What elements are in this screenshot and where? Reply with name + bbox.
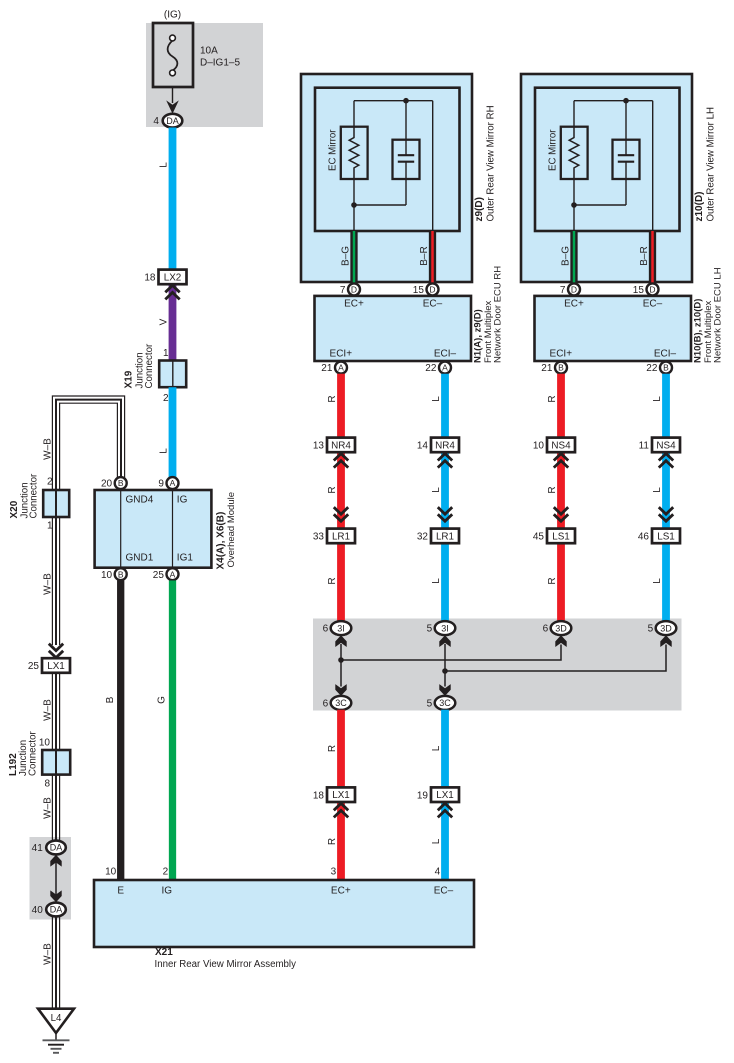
junction connector L192 [42,750,70,775]
resistor (EC mirror element) [341,127,368,179]
connector 40 DA [46,903,66,917]
svg-text:10: 10 [533,441,545,452]
chevron arrows above 25 LX1 [49,651,63,658]
svg-text:6: 6 [323,699,329,710]
junction connector X19 [159,361,186,388]
svg-text:46: 46 [638,532,650,543]
connector 10 NS4 [547,438,575,453]
connector 18 LX1 [327,787,355,802]
gray junction band (left, 41 DA / 40 DA) [30,837,72,920]
chevron arrows below 13 NR4 [334,454,348,461]
svg-text:B: B [118,478,124,488]
connector 6 3D [551,621,572,635]
svg-text:W–B: W–B [43,438,54,460]
svg-text:Network Door ECU RH: Network Door ECU RH [492,266,503,363]
wire internal top [574,100,653,102]
svg-text:21: 21 [321,363,333,374]
arrow into 6 3D [555,635,566,647]
connector 41 DA [46,841,66,855]
junction dot (node EC+) [338,657,344,663]
junction dot (bottom) [351,202,357,208]
pin 7 D [568,283,580,295]
wire capacitor bottom lead [405,162,407,205]
svg-text:B–G: B–G [560,246,571,266]
pin 20 B (overhead module) [115,477,127,489]
svg-text:LS1: LS1 [657,531,675,542]
svg-text:W–B: W–B [43,573,54,595]
wire B (black, overhead module pin 10 to X21 pin 10) [117,581,124,881]
connector 4 DA [163,114,183,128]
svg-text:NS4: NS4 [551,440,571,451]
crossover wire EC- (5 3I to 5 3D) [445,645,666,672]
svg-text:8: 8 [44,779,50,790]
wire fuse to connector 4 DA [172,87,174,103]
svg-text:22: 22 [646,363,658,374]
svg-text:L: L [652,396,663,402]
svg-text:ECI–: ECI– [654,348,677,359]
junction dot (top, above capacitor) [403,98,409,104]
svg-text:L4: L4 [51,1013,62,1024]
connector 5 3I [435,621,456,635]
wire L (11 NS4 to 46 LS1) [662,452,670,528]
chevron arrows below 11 NS4 [659,454,673,461]
svg-text:R: R [327,395,338,402]
svg-text:EC Mirror: EC Mirror [328,129,339,171]
svg-text:3D: 3D [660,623,672,633]
svg-text:X21: X21 [155,947,173,958]
svg-text:Connector: Connector [144,343,155,388]
wire R (18 LX1 to X21) [337,802,345,880]
wire G (green, overhead module pin 25 to X21 pin 2) [169,581,176,881]
svg-text:B–R: B–R [419,246,430,265]
svg-text:ECI+: ECI+ [330,348,353,359]
svg-text:D: D [571,285,577,295]
svg-text:6: 6 [543,624,549,635]
svg-text:D–IG1–5: D–IG1–5 [200,58,240,69]
junction dot (top, above capacitor) [623,98,629,104]
svg-text:LR1: LR1 [332,531,351,542]
svg-text:B–G: B–G [340,246,351,266]
wire B-R (z10(D) pin 15) [649,231,656,283]
capacitor [393,140,420,179]
resistor (EC mirror element) [561,127,588,179]
svg-text:W–B: W–B [43,797,54,819]
wire resistor bottom lead [573,179,575,231]
svg-text:N10(B), z10(D): N10(B), z10(D) [692,299,703,363]
pin 9 A (overhead module) [167,477,179,489]
inner rear view mirror assembly X21 [94,880,474,947]
wire capacitor top lead [625,101,627,156]
svg-text:L: L [431,396,442,402]
svg-text:L: L [158,448,169,454]
connector 6 3C [331,696,352,710]
svg-text:LS1: LS1 [552,531,570,542]
wire W-B (X20 up and over to overhead module pin 20) [52,396,124,490]
svg-text:R: R [547,577,558,584]
pin 7 D [348,283,360,295]
chevron arrows below 18 LX1 [334,803,348,810]
chevron arrows below 18 LX2 [165,285,179,292]
svg-text:L: L [431,745,442,751]
svg-text:E: E [117,885,124,896]
svg-text:15: 15 [633,285,645,296]
svg-text:A: A [170,478,176,488]
wire W-B (40 DA to ground L4) [51,917,53,1009]
EC mirror inner box [535,88,680,231]
svg-text:4: 4 [435,867,441,878]
svg-text:A: A [170,569,176,579]
svg-text:G: G [157,696,168,704]
svg-text:19: 19 [417,790,429,801]
svg-text:L: L [652,578,663,584]
svg-text:3C: 3C [439,698,451,708]
wire R (3C to 18 LX1) [337,710,345,788]
pin 15 D [647,283,659,295]
svg-text:7: 7 [560,285,566,296]
svg-text:R: R [327,577,338,584]
junction dot (node EC-) [442,668,448,674]
svg-text:22: 22 [425,363,437,374]
svg-text:2: 2 [163,867,169,878]
svg-text:R: R [327,745,338,752]
wire L (32 LR1 down) [441,543,449,621]
svg-text:W–B: W–B [43,943,54,965]
svg-text:EC+: EC+ [564,299,584,310]
svg-text:4: 4 [153,116,159,127]
svg-text:B: B [663,363,669,373]
svg-text:5: 5 [427,699,433,710]
svg-text:10: 10 [39,738,51,749]
svg-text:NS4: NS4 [656,440,676,451]
wire W-B (L192 to 41 DA) [51,775,53,841]
svg-text:B–R: B–R [639,246,650,265]
wire capacitor top lead [405,101,407,156]
svg-text:21: 21 [541,363,553,374]
wire internal bottom [354,204,406,206]
svg-text:LX1: LX1 [332,790,350,801]
arrowhead into 4 DA [166,100,179,113]
pin 21 A (ECU RH) [335,362,347,374]
arrow into 6 3I [335,635,346,647]
svg-text:7: 7 [340,285,346,296]
svg-text:EC+: EC+ [344,299,364,310]
wire L (4 DA to 18 LX2) [169,128,177,270]
fuse 10A D-IG1-5 [153,23,193,87]
svg-text:N1(A), z9(D): N1(A), z9(D) [472,309,483,363]
svg-text:IG1: IG1 [177,553,194,564]
wire R (ECU pin to 10 NS4) [557,374,565,438]
svg-text:A: A [442,363,448,373]
svg-text:L: L [431,578,442,584]
connector 18 LX2 [159,270,187,285]
wire L (ECU pin to 14 NR4) [441,374,449,438]
svg-text:Connector: Connector [29,473,40,518]
wire W-B (25 LX1 to L192) [51,673,53,750]
connector 14 NR4 [431,438,459,453]
connector 13 NR4 [327,438,355,453]
wire R (33 LR1 down) [337,543,345,621]
front multiplex network door ECU LH N10(B) [535,296,692,361]
svg-text:3I: 3I [337,623,345,633]
svg-text:R: R [547,395,558,402]
wire B-R (z9(D) pin 15) [429,231,436,283]
pin 21 B (ECU LH) [555,362,567,374]
svg-text:6: 6 [323,624,329,635]
arrow into 5 3C [439,684,450,696]
wire internal top [354,100,433,102]
svg-text:EC–: EC– [434,885,454,896]
wire L (X19 to overhead module pin 9) [169,387,177,483]
chevron arrows below 14 NR4 [438,454,452,461]
svg-text:25: 25 [153,570,165,581]
chevron arrows below 10 NS4 [554,454,568,461]
svg-text:(IG): (IG) [164,10,181,21]
svg-text:10A: 10A [200,46,218,57]
svg-text:L: L [158,162,169,168]
svg-text:LX1: LX1 [436,790,454,801]
svg-text:11: 11 [639,441,650,452]
svg-text:14: 14 [417,441,429,452]
pin 22 A (ECU RH) [439,362,451,374]
wire B-G (z9(D) pin 7) [350,231,357,283]
pin 15 D [427,283,439,295]
svg-text:B: B [105,696,116,703]
wire R (45 LS1 down) [557,543,565,621]
junction dot (bottom) [571,202,577,208]
svg-text:A: A [338,363,344,373]
svg-text:20: 20 [101,479,113,490]
svg-text:DA: DA [50,843,63,853]
outer rear view mirror body z10(D) [521,74,692,282]
svg-text:33: 33 [313,532,325,543]
ground L4 [38,1009,74,1033]
svg-text:IG: IG [162,885,173,896]
arrow into 5 3I [439,635,450,647]
svg-text:ECI+: ECI+ [550,348,573,359]
front multiplex network door ECU RH N1(A) [315,296,472,361]
svg-text:EC+: EC+ [331,885,351,896]
svg-text:R: R [327,486,338,493]
svg-text:EC–: EC– [643,299,663,310]
chevron arrows below 19 LX1 [438,803,452,810]
svg-text:L: L [431,487,442,493]
wire internal right vertical [432,101,434,231]
svg-text:GND1: GND1 [126,553,154,564]
svg-text:45: 45 [533,532,545,543]
svg-text:9: 9 [158,479,164,490]
connector 32 LR1 [431,529,459,544]
chevron arrows above 45 LS1 [554,514,568,521]
chevron arrows above 46 LS1 [659,514,673,521]
connector 19 LX1 [431,787,459,802]
connector 25 LX1 [42,658,70,673]
wire 41 DA to 40 DA with arrows [55,858,57,899]
wire internal right vertical [652,101,654,231]
svg-text:1: 1 [163,348,169,359]
svg-text:z9(D): z9(D) [474,197,485,221]
svg-text:18: 18 [313,790,325,801]
svg-text:13: 13 [313,441,325,452]
wire R (ECU pin to 13 NR4) [337,374,345,438]
chevron arrows above 32 LR1 [438,514,452,521]
svg-text:D: D [351,285,357,295]
svg-text:R: R [547,486,558,493]
pin 25 A (overhead module) [167,568,179,580]
connector 5 3D [656,621,677,635]
wire V (18 LX2 to X19) [169,284,177,360]
svg-text:EC–: EC– [423,299,443,310]
EC mirror inner box [315,88,460,231]
crossover wire EC+ (6 3I to 6 3D) [341,645,561,661]
outer rear view mirror body z9(D) [301,74,472,282]
wire L (ECU pin to 11 NS4) [662,374,670,438]
connector 45 LS1 [547,529,575,544]
arrow into 6 3C [335,684,346,696]
svg-text:Outer Rear View Mirror RH: Outer Rear View Mirror RH [486,105,497,221]
svg-text:B: B [558,363,564,373]
svg-text:LR1: LR1 [436,531,455,542]
connector 46 LS1 [652,529,680,544]
wire R (10 NS4 to 45 LS1) [557,452,565,528]
wire resistor bottom lead [353,179,355,231]
wire junction vertical (6 3I to 6 3C) [340,644,342,687]
svg-text:z10(D): z10(D) [694,191,705,221]
arrow into 5 3D [660,635,671,647]
svg-text:3: 3 [331,867,337,878]
svg-text:DA: DA [166,116,179,126]
chevron arrows above 33 LR1 [334,514,348,521]
wire R (13 NR4 to 33 LR1) [337,452,345,528]
svg-text:W–B: W–B [43,699,54,721]
connector 5 3C [435,696,456,710]
wire L (14 NR4 to 32 LR1) [441,452,449,528]
svg-text:D: D [649,285,655,295]
wire L (46 LS1 down) [662,543,670,621]
svg-text:3D: 3D [555,623,567,633]
wire internal bottom [574,204,626,206]
wire capacitor bottom lead [625,162,627,205]
svg-text:EC Mirror: EC Mirror [548,129,559,171]
overhead module X4(A) X6(B) [95,490,212,568]
svg-text:40: 40 [32,905,44,916]
svg-text:L: L [431,838,442,844]
svg-text:Network Door ECU LH: Network Door ECU LH [712,267,723,363]
svg-text:Outer Rear View Mirror LH: Outer Rear View Mirror LH [706,107,717,222]
svg-text:41: 41 [32,843,44,854]
svg-text:25: 25 [28,661,40,672]
svg-text:Inner Rear View Mirror Assembl: Inner Rear View Mirror Assembly [155,959,297,970]
svg-text:IG: IG [177,495,188,506]
ground symbol [55,1033,57,1040]
capacitor [613,140,640,179]
svg-text:10: 10 [101,570,113,581]
wire L (19 LX1 to X21) [441,802,449,880]
svg-text:5: 5 [648,624,654,635]
junction connector X20 [43,490,69,517]
wire B-G (z10(D) pin 7) [570,231,577,283]
svg-text:LX2: LX2 [164,272,182,283]
svg-text:3I: 3I [441,623,449,633]
svg-text:GND4: GND4 [126,495,154,506]
connector 6 3I [331,621,352,635]
wire junction vertical (5 3I to 5 3C) [444,644,446,687]
svg-text:NR4: NR4 [435,440,455,451]
svg-text:Overhead Module: Overhead Module [226,492,237,568]
svg-text:NR4: NR4 [331,440,351,451]
gray junction band (center, 3I/3C/3D) [313,619,682,711]
connector 11 NS4 [652,438,680,453]
power source block shading (IG fuse area) [146,23,263,127]
wire W-B (X20 to 25 LX1) [51,517,53,645]
svg-text:5: 5 [427,624,433,635]
svg-text:2: 2 [47,476,53,487]
wire L (3C to 19 LX1) [441,710,449,788]
svg-text:D: D [429,285,435,295]
svg-text:10: 10 [105,867,117,878]
svg-text:X19: X19 [124,370,135,388]
svg-text:LX1: LX1 [47,661,65,672]
svg-text:R: R [327,838,338,845]
svg-text:L: L [652,487,663,493]
svg-text:2: 2 [163,393,169,404]
svg-text:3C: 3C [335,698,347,708]
svg-text:V: V [158,318,169,325]
svg-text:18: 18 [144,273,156,284]
connector 33 LR1 [327,529,355,544]
pin 22 B (ECU LH) [660,362,672,374]
svg-text:ECI–: ECI– [434,348,457,359]
svg-text:Connector: Connector [27,731,38,776]
svg-text:DA: DA [50,905,63,915]
svg-text:32: 32 [417,532,429,543]
svg-text:15: 15 [413,285,425,296]
pin 10 B (overhead module) [115,568,127,580]
svg-text:B: B [118,569,124,579]
